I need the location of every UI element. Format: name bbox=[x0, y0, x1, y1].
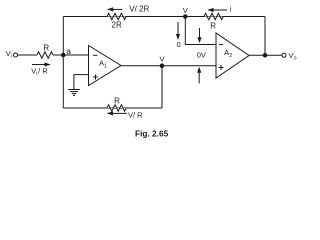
resistor 2R bbox=[107, 13, 126, 19]
svg-text:R: R bbox=[114, 97, 120, 106]
ground bbox=[68, 90, 80, 96]
wire bbox=[18, 54, 38, 56]
output terminal Vo bbox=[282, 53, 286, 57]
wire bbox=[74, 75, 89, 90]
current arrow 0 bbox=[176, 22, 180, 40]
current arrow V/R bbox=[107, 111, 127, 115]
resistor R (top feedback) bbox=[204, 13, 223, 19]
wire bbox=[185, 17, 216, 45]
svg-text:V/ R: V/ R bbox=[128, 110, 143, 119]
voltage arrow V (up, at A2 plus input) bbox=[197, 67, 201, 84]
resistor R (bottom feedback) bbox=[107, 105, 126, 111]
wire bbox=[63, 107, 162, 109]
wire bbox=[62, 17, 64, 109]
svg-text:2R: 2R bbox=[112, 20, 122, 29]
current arrow V/2R bbox=[107, 7, 122, 11]
op-amp A1 bbox=[89, 46, 122, 86]
wire bbox=[121, 65, 216, 67]
wire bbox=[161, 66, 163, 108]
input terminal Vi bbox=[14, 53, 18, 57]
svg-text:R: R bbox=[43, 43, 49, 52]
svg-text:V: V bbox=[183, 6, 188, 15]
node V (A1 output) bbox=[160, 64, 164, 68]
svg-text:V: V bbox=[160, 55, 165, 64]
svg-text:0: 0 bbox=[177, 40, 181, 49]
current arrow 0V bbox=[197, 28, 201, 43]
node V (top) bbox=[184, 15, 188, 19]
A2 minus mark bbox=[219, 44, 223, 46]
wire bbox=[249, 54, 282, 56]
op-amp A2 bbox=[216, 33, 249, 78]
wire bbox=[264, 17, 266, 56]
node output bbox=[263, 54, 267, 58]
svg-text:Fig. 2.65: Fig. 2.65 bbox=[135, 129, 169, 139]
svg-text:V/ 2R: V/ 2R bbox=[129, 5, 149, 14]
wire bbox=[53, 54, 88, 56]
svg-text:0V: 0V bbox=[197, 51, 206, 60]
A1 minus mark bbox=[93, 54, 97, 56]
A1 plus mark bbox=[93, 75, 98, 80]
current arrow i bbox=[208, 8, 228, 12]
svg-text:a: a bbox=[66, 47, 71, 56]
node a bbox=[62, 53, 66, 57]
current arrow Vi/R bbox=[32, 62, 51, 66]
A2 plus mark bbox=[219, 65, 224, 70]
svg-text:R: R bbox=[210, 22, 216, 31]
wire bbox=[63, 16, 265, 18]
resistor R (input) bbox=[37, 52, 53, 58]
